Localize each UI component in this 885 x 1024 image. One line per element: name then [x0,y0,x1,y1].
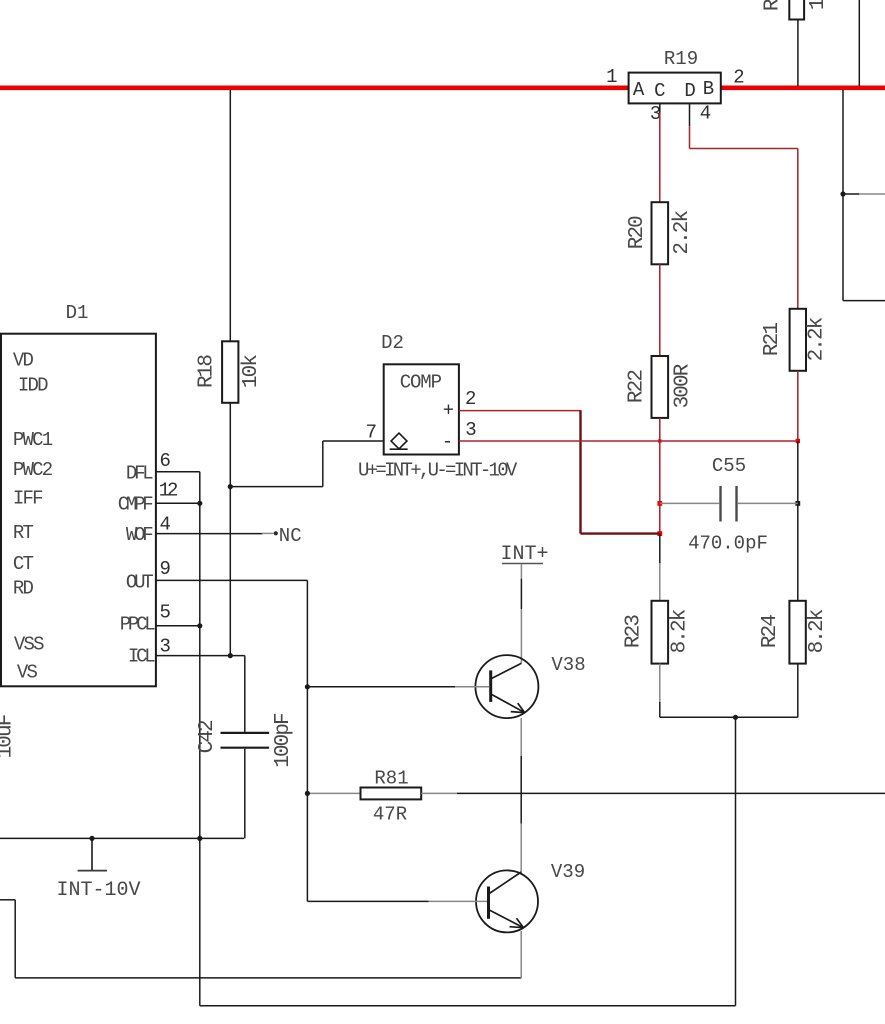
svg-text:B: B [703,78,714,100]
svg-text:7: 7 [366,421,377,443]
wire CMPF pin line [156,502,200,504]
transistor V39 emitter arrowhead [510,918,524,927]
R19 pin number 1 [606,66,617,88]
svg-text:C42: C42 [196,720,219,753]
capacitor C42 bottom lead [244,749,246,839]
svg-text:2: 2 [733,66,744,88]
svg-text:4: 4 [700,102,711,124]
wire R24 down to bottom rail [797,664,799,718]
D1 pin number 5 [160,602,171,624]
D2 COMP type label [400,372,442,394]
D1 pin name CMPF [118,494,154,516]
wire R18 down to ICL net [229,403,231,656]
svg-text:9: 9 [160,558,171,580]
INT-10V terminal bar [78,870,107,872]
wire gray V38 collector lead [520,609,522,663]
svg-text:WOF: WOF [126,524,153,546]
capacitor C55 right lead [738,502,798,504]
wire dark red vertical of pin2 net [579,411,581,534]
capacitor C55 left lead [660,502,720,504]
wire red pin3 to R20 [659,113,661,202]
wire R81 net to right edge [457,792,885,794]
wire ICL net down to C42 [244,656,246,732]
svg-text:NC: NC [279,525,302,547]
wire red R20 to R22 [659,264,661,356]
wire red D2 pin2 output [459,410,582,412]
transistor V39 emitter diagonal [489,910,523,928]
capacitor C42 designator label [196,720,219,753]
transistor V38 circle [475,655,538,718]
svg-text:D2: D2 [381,332,404,354]
svg-text:COMP: COMP [400,372,442,394]
node junction at (230.3,655.6) [228,653,233,658]
resistor R22 designator label [626,370,649,403]
wire V39 emitter rail [15,977,521,979]
svg-text:4: 4 [160,514,171,536]
wire V38 base gray lead [455,686,489,688]
resistor R18 designator label [196,355,219,388]
svg-text:IDD: IDD [18,374,48,396]
resistor R21 designator label [761,323,784,356]
capacitor C42 bottom plate [221,747,270,749]
D2 plus input marker [443,399,454,421]
wire D2 pin7 to R18 net [230,486,322,488]
D1 pin name CT [13,553,34,575]
resistor R18 value 10k [240,355,263,388]
D1 pin name VD [13,350,34,372]
resistor R20 body [652,202,669,264]
svg-text:3: 3 [465,419,476,441]
wire INT-10V rail [0,837,244,839]
node junction at (307.4,687) [305,684,310,689]
wire D2 pin7 horizontal [323,440,384,442]
svg-text:R22: R22 [626,370,649,403]
node junction at (92,838.4) [89,836,94,841]
svg-text:3: 3 [160,636,171,658]
wire V39 base gray lead [429,900,487,902]
R19 pin 4 stub [689,103,691,126]
transistor V39 circle [476,870,538,932]
resistor R23 body [652,601,669,664]
svg-text:V39: V39 [551,861,585,883]
resistor R20 value 2.2k [671,211,694,255]
capacitor C42 value 100pF [272,713,295,768]
svg-text:10k: 10k [807,0,830,10]
R19 pin number 2 [733,66,744,88]
node junction red square at comparator output node [657,531,662,536]
wire D2 pin7 vertical bend [322,441,324,487]
svg-text:2.2k: 2.2k [671,211,694,255]
capacitor C55 right plate [735,486,737,522]
D1 pin number 9 [160,558,171,580]
svg-text:+: + [443,399,454,421]
wire dark red horizontal of pin2 net [581,532,660,534]
svg-text:-: - [442,431,453,453]
R19 pin 3 stub [659,103,661,113]
svg-text:R81: R81 [374,768,408,790]
svg-text:1: 1 [606,66,617,88]
wire from resistor R1x to bus [797,19,799,86]
transistor V38 emitter diagonal [492,694,525,712]
node junction red at (797.8,441) [796,439,800,443]
wire V39 base black [307,900,428,902]
svg-text:ICL: ICL [128,646,155,668]
D1 pin name RD [13,578,34,600]
resistor R22 body [652,356,669,418]
wire bottom rail R23-R24 [660,716,798,718]
op-amp comparator D2 body [384,364,459,454]
svg-text:DFL: DFL [126,462,153,484]
capacitor C55 left plate [719,486,721,522]
D1 pin name RT [13,522,34,544]
svg-text:VD: VD [13,350,34,372]
svg-text:C55: C55 [712,455,746,477]
capacitor C55 designator label [712,455,746,477]
NC tick [262,532,274,534]
D1 pin name PWC2 [13,459,53,481]
svg-text:A: A [633,79,645,101]
R19 pin number 3 [650,103,661,125]
wire INT+ black segment [520,579,522,610]
wire red pin4 down [689,126,691,148]
resistor R24 body [789,601,805,664]
svg-text:VS: VS [17,661,38,683]
resistor R22 value 300R [672,363,695,408]
svg-text:V38: V38 [551,654,585,676]
wire ICL pin line [156,655,245,657]
svg-text:12: 12 [159,479,178,501]
svg-text:470.0pF: 470.0pF [688,533,768,555]
D1 pin name VSS [14,634,44,656]
svg-text:R24: R24 [759,615,782,648]
svg-text:IFF: IFF [13,487,43,509]
V38 designator label [551,654,585,676]
resistor R23 value 8.2k [669,609,692,653]
D1 pin name ICL [128,646,155,668]
resistor R21 value 2.2k [806,317,829,361]
wire gray V39 collector lead [520,824,522,873]
svg-text:U+=INT+,U-=INT-10V: U+=INT+,U-=INT-10V [358,460,518,482]
wire DFL net vertical down to bottom [199,472,201,1006]
wire bottom left horizontal at y=900 [0,899,15,901]
svg-text:R17: R17 [762,0,785,11]
svg-text:2.2k: 2.2k [806,317,829,361]
svg-text:100pF: 100pF [272,713,295,768]
NC label [279,525,302,547]
wire INT+ gray stub [520,565,522,579]
D1 designator label [66,302,89,324]
wire node red small at R22/D2 minus crossing [658,439,661,442]
svg-text:PWC1: PWC1 [13,429,53,451]
svg-text:10uF: 10uF [0,714,18,758]
wire black R21 node down to R24 [797,441,799,601]
wire red D2 pin3 input from R21 node [459,440,798,442]
resistor R24 designator label [759,615,782,648]
R19 pin number 4 [700,102,711,124]
svg-text:47R: 47R [373,804,407,826]
wire black bus to R18 [229,90,231,341]
transistor V39 base bar [487,887,490,919]
D2 minus input marker [442,431,453,453]
svg-text:PWC2: PWC2 [13,459,53,481]
transistor V39 collector diagonal [489,872,521,894]
D2 rule label U+=INT+,U-=INT-10V [358,460,518,482]
D1 pin name WOF [126,524,153,546]
capacitor 10uF value label at left edge [0,714,18,758]
D1 pin number 12 [159,479,178,501]
resistor network R19 body [629,73,721,104]
resistor R81 right gray lead [421,792,457,794]
transistor V38 collector diagonal [492,663,522,678]
resistor R1x designator label (partially visible "R") [762,0,785,11]
INT+ terminal underline [502,563,543,565]
resistor R18 body [222,341,238,403]
D1 pin name VS [17,661,38,683]
D2 pin number 7 [366,421,377,443]
D1 pin number 4 [160,514,171,536]
node junction at (843,194) [840,191,845,196]
R19 pin name C [654,80,665,102]
wire bottom left vertical [14,900,16,978]
node junction red square at C55 left lead [657,501,662,506]
node junction at (199.8,838.4) [197,836,202,841]
wire red horizontal to R21 column [690,148,798,150]
capacitor C42 top plate [221,732,270,734]
resistor R1x (cut off at top edge) [789,0,804,20]
wire WOF pin line [156,533,263,535]
svg-text:8.2k: 8.2k [806,609,829,653]
INT-10V net label [57,879,141,902]
wire gray lead to R23 [659,563,661,601]
resistor R24 value 8.2k [806,609,829,653]
svg-text:INT-10V: INT-10V [57,879,141,902]
svg-text:2: 2 [465,388,476,410]
svg-text:RD: RD [13,578,34,600]
wire vertical at top right to bus [858,0,860,86]
transistor V38 base bar [489,670,492,702]
R19 pin name B [703,78,714,100]
D2 designator label [381,332,404,354]
D1 pin name PWC1 [13,429,53,451]
D1 pin name IFF [13,487,43,509]
svg-text:D1: D1 [66,302,89,324]
wire DFL pin line [156,471,200,473]
resistor R81 designator label [374,768,408,790]
INT+ net label [501,543,549,566]
resistor R23 designator label [623,615,646,648]
resistor R20 designator label [626,216,649,249]
node junction at (199.8,625.8) [197,623,202,628]
svg-text:10k: 10k [240,355,263,388]
wire V38 emitter gray below [520,718,522,756]
R19 pin name D [684,80,695,102]
svg-text:R18: R18 [196,355,219,388]
wire black below node [659,534,661,563]
wire black mid segment V38-V39 [520,756,522,824]
node junction at (735.5,717.3) [733,715,738,720]
NC terminal dot [274,531,278,535]
svg-text:D: D [684,80,695,102]
INT-10V terminal stub [91,838,93,870]
wire V38 base black [307,686,455,688]
node junction at (199.8,503.3) [197,501,202,506]
D1 pin name DFL [126,462,153,484]
svg-text:R21: R21 [761,323,784,356]
node junction at (230.3,486.6) [228,484,233,489]
D2 pin number 2 [465,388,476,410]
svg-text:CMPF: CMPF [118,494,154,516]
wire OUT net vertical to V39 base [306,580,308,901]
svg-text:6: 6 [160,450,171,472]
transistor V38 emitter arrowhead [511,703,525,713]
wire red down to R21 [797,149,799,309]
D2 pin number 3 [465,419,476,441]
D1 pin name OUT [126,571,153,593]
D1 pin number 3 [160,636,171,658]
D1 pin name IDD [18,374,48,396]
capacitor C55 value 470.0pF [688,533,768,555]
svg-text:R23: R23 [623,615,646,648]
wire stub black right of junction [843,193,859,195]
node junction at (307.4,793.4) [305,791,310,796]
svg-text:R19: R19 [664,48,698,70]
resistor R81 body [361,788,422,800]
svg-text:PPCL: PPCL [120,614,156,636]
wire OUT pin line [156,579,308,581]
resistor R1x value label (partially visible "1") [807,0,830,10]
svg-text:5: 5 [160,602,171,624]
svg-text:RT: RT [13,522,34,544]
resistor R81 value 47R [373,804,407,826]
D2 hysteresis diamond symbol [390,433,408,449]
wire bottom run to R23/R24 rail [200,1005,736,1007]
svg-text:OUT: OUT [126,571,153,593]
svg-text:C: C [654,80,665,102]
wire to right edge at y=300 [843,300,885,302]
svg-text:INT+: INT+ [501,543,549,566]
wire V39 emitter gray down [520,931,522,978]
wire gray pin lead to right edge [859,193,885,195]
node junction black square at C55 right lead [795,501,800,506]
svg-text:300R: 300R [672,363,695,408]
red power bus net [0,86,885,91]
svg-text:8.2k: 8.2k [669,609,692,653]
resistor R19 designator label [664,48,698,70]
wire from bus down at x=843 [842,90,844,301]
IC D1 body [1,334,156,687]
wire PPCL pin line [156,625,200,627]
wire red R21 down to node [797,371,799,441]
wire down from bottom rail junction [735,717,737,1006]
svg-text:R20: R20 [626,216,649,249]
wire red R22 down to comparator node [659,418,661,534]
D1 pin name PPCL [120,614,156,636]
resistor R21 body [790,309,806,371]
V39 designator label [551,861,585,883]
R19 pin name A [633,79,645,101]
wire gray below R23 [659,664,661,702]
svg-text:CT: CT [13,553,34,575]
D1 pin number 6 [160,450,171,472]
svg-text:VSS: VSS [14,634,44,656]
resistor R81 left gray lead [307,792,360,794]
wire black to bottom rail [659,702,661,717]
